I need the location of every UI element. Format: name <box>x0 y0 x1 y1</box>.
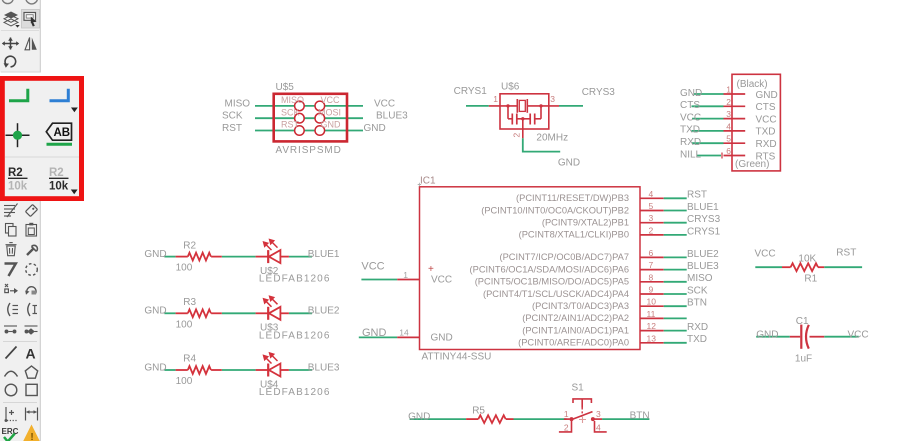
svg-text:GND: GND <box>144 249 166 260</box>
svg-text:R4: R4 <box>183 354 196 365</box>
svg-text:MISO: MISO <box>281 95 304 105</box>
svg-text:BLUE3: BLUE3 <box>687 261 719 272</box>
svg-text:3: 3 <box>596 409 601 419</box>
svg-text:CTS: CTS <box>756 102 776 113</box>
svg-text:7: 7 <box>649 260 654 270</box>
svg-text:R2: R2 <box>8 167 23 179</box>
svg-text:RXD: RXD <box>756 139 777 150</box>
svg-text:AB: AB <box>54 127 71 139</box>
svg-text:20MHz: 20MHz <box>536 132 568 143</box>
svg-text:6: 6 <box>649 248 654 258</box>
svg-text:(Black): (Black) <box>737 79 768 90</box>
svg-text:R2: R2 <box>49 167 64 179</box>
svg-text:BLUE3: BLUE3 <box>376 111 408 122</box>
svg-text:SCK: SCK <box>222 111 243 122</box>
svg-text:RXD: RXD <box>687 322 708 333</box>
svg-text:GND: GND <box>144 306 166 317</box>
svg-text:(PCINT4/T1/SCL/USCK/ADC4)PA4: (PCINT4/T1/SCL/USCK/ADC4)PA4 <box>483 289 629 299</box>
svg-text:A: A <box>26 346 36 362</box>
svg-text:(PCINT8/XTAL1/CLKI)PB0: (PCINT8/XTAL1/CLKI)PB0 <box>519 230 629 240</box>
svg-text:CRYS3: CRYS3 <box>687 214 721 225</box>
svg-text:RST: RST <box>222 123 242 134</box>
svg-text:CTS: CTS <box>680 100 700 111</box>
svg-text:BTN: BTN <box>687 298 707 309</box>
svg-text:RST: RST <box>687 190 707 201</box>
svg-text:VCC: VCC <box>431 275 452 286</box>
svg-text:(PCINT0/AREF/ADC0)PA0: (PCINT0/AREF/ADC0)PA0 <box>518 338 629 348</box>
svg-text:MISO: MISO <box>225 98 251 109</box>
svg-text:GND: GND <box>756 330 778 341</box>
svg-text:5: 5 <box>649 201 654 211</box>
svg-text:2: 2 <box>649 225 654 235</box>
svg-text:(PCINT2/AIN1/ADC2)PA2: (PCINT2/AIN1/ADC2)PA2 <box>522 313 629 323</box>
svg-text:GND: GND <box>364 123 386 134</box>
svg-text:GND: GND <box>362 327 387 339</box>
svg-text:10K: 10K <box>798 254 816 265</box>
svg-text:2: 2 <box>726 97 731 107</box>
svg-text:GND: GND <box>321 120 342 130</box>
svg-text:BLUE1: BLUE1 <box>308 249 340 260</box>
svg-text:(PCINT6/OC1A/SDA/MOSI/ADC6)PA6: (PCINT6/OC1A/SDA/MOSI/ADC6)PA6 <box>470 264 629 274</box>
svg-text:VCC: VCC <box>680 112 701 123</box>
svg-text:C1: C1 <box>796 316 809 327</box>
svg-text:CRYS1: CRYS1 <box>687 226 721 237</box>
svg-text:1: 1 <box>403 270 408 280</box>
svg-text:GND: GND <box>408 412 430 423</box>
svg-text:2: 2 <box>564 422 569 432</box>
svg-text:TXD: TXD <box>680 125 700 136</box>
svg-text:5: 5 <box>726 134 731 144</box>
svg-text:1: 1 <box>493 94 498 104</box>
svg-text:6: 6 <box>726 146 731 156</box>
svg-text:R5: R5 <box>472 406 485 417</box>
svg-text:MOSI: MOSI <box>318 107 341 117</box>
svg-text:(PCINT11/RESET/DW)PB3: (PCINT11/RESET/DW)PB3 <box>516 193 629 203</box>
svg-text:CRYS1: CRYS1 <box>454 86 488 97</box>
svg-text:R1: R1 <box>804 273 817 284</box>
svg-text:(PCINT9/XTAL2)PB1: (PCINT9/XTAL2)PB1 <box>542 218 629 228</box>
svg-text:GND: GND <box>144 362 166 373</box>
svg-text:8: 8 <box>649 272 654 282</box>
svg-text:4: 4 <box>596 422 601 432</box>
svg-text:VCC: VCC <box>755 248 776 259</box>
svg-text:14: 14 <box>399 328 409 338</box>
svg-text:GND: GND <box>756 90 778 101</box>
svg-text:LEDFAB1206: LEDFAB1206 <box>259 330 331 341</box>
svg-text:VCC: VCC <box>321 95 341 105</box>
svg-text:2: 2 <box>512 133 522 138</box>
svg-text:RST: RST <box>281 120 300 130</box>
svg-text:SCK: SCK <box>687 285 708 296</box>
svg-text:IC1: IC1 <box>420 176 436 187</box>
svg-text:12: 12 <box>647 321 657 331</box>
svg-text:100: 100 <box>176 263 193 274</box>
svg-text:AVRISPSMD: AVRISPSMD <box>276 145 342 156</box>
svg-text:+: + <box>428 264 434 275</box>
svg-text:!: ! <box>30 432 33 441</box>
svg-text:MISO: MISO <box>687 273 713 284</box>
svg-text:BLUE2: BLUE2 <box>308 306 340 317</box>
svg-text:3: 3 <box>649 213 654 223</box>
svg-text:(PCINT10/INT0/OC0A/CKOUT)PB2: (PCINT10/INT0/OC0A/CKOUT)PB2 <box>481 205 629 215</box>
svg-text:13: 13 <box>647 333 657 343</box>
svg-text:GND: GND <box>558 157 580 168</box>
svg-text:4: 4 <box>649 189 654 199</box>
svg-text:11: 11 <box>647 309 656 319</box>
svg-text:GND: GND <box>680 88 702 99</box>
svg-text:BLUE3: BLUE3 <box>308 362 340 373</box>
svg-text:(PCINT3/T0/ADC3)PA3: (PCINT3/T0/ADC3)PA3 <box>532 301 629 311</box>
svg-text:10k: 10k <box>8 181 28 193</box>
svg-text:RXD: RXD <box>680 137 701 148</box>
svg-text:RST: RST <box>836 248 856 259</box>
svg-text:VCC: VCC <box>848 330 869 341</box>
svg-text:1: 1 <box>564 409 569 419</box>
svg-text:TXD: TXD <box>756 127 776 138</box>
svg-text:3: 3 <box>550 94 555 104</box>
svg-text:4: 4 <box>726 121 731 131</box>
svg-text:100: 100 <box>176 376 193 387</box>
svg-text:U$5: U$5 <box>276 82 295 93</box>
svg-text:BLUE1: BLUE1 <box>687 202 719 213</box>
svg-text:1: 1 <box>726 85 731 95</box>
svg-text:TXD: TXD <box>687 334 707 345</box>
svg-text:LEDFAB1206: LEDFAB1206 <box>259 387 331 398</box>
svg-text:R2: R2 <box>183 240 196 251</box>
svg-text:1uF: 1uF <box>795 354 812 365</box>
svg-text:ATTINY44-SSU: ATTINY44-SSU <box>422 352 492 363</box>
svg-text:GND: GND <box>431 333 453 344</box>
svg-text:(PCINT1/AIN0/ADC1)PA1: (PCINT1/AIN0/ADC1)PA1 <box>522 325 629 335</box>
svg-text:3: 3 <box>726 109 731 119</box>
svg-text:VCC: VCC <box>361 260 384 272</box>
svg-text:VCC: VCC <box>756 114 777 125</box>
svg-text:10: 10 <box>647 297 657 307</box>
svg-text:ERC: ERC <box>2 427 19 436</box>
svg-text:LEDFAB1206: LEDFAB1206 <box>259 274 331 285</box>
svg-text:U$6: U$6 <box>501 81 520 92</box>
svg-text:CRYS3: CRYS3 <box>582 87 616 98</box>
svg-text:NILL: NILL <box>680 149 702 160</box>
svg-text:R3: R3 <box>183 297 196 308</box>
svg-text:(PCINT5/OC1B/MISO/DO/ADC5)PA5: (PCINT5/OC1B/MISO/DO/ADC5)PA5 <box>475 277 629 287</box>
svg-text:9: 9 <box>649 285 654 295</box>
svg-text:S1: S1 <box>572 383 585 394</box>
svg-text:BTN: BTN <box>630 411 650 422</box>
svg-text:RTS: RTS <box>756 151 776 162</box>
svg-text:VCC: VCC <box>374 98 395 109</box>
svg-text:10k: 10k <box>49 181 69 193</box>
svg-text:100: 100 <box>176 319 193 330</box>
svg-text:(PCINT7/ICP/OC0B/ADC7)PA7: (PCINT7/ICP/OC0B/ADC7)PA7 <box>500 252 630 262</box>
svg-text:SCK: SCK <box>281 107 300 117</box>
svg-text:BLUE2: BLUE2 <box>687 249 719 260</box>
